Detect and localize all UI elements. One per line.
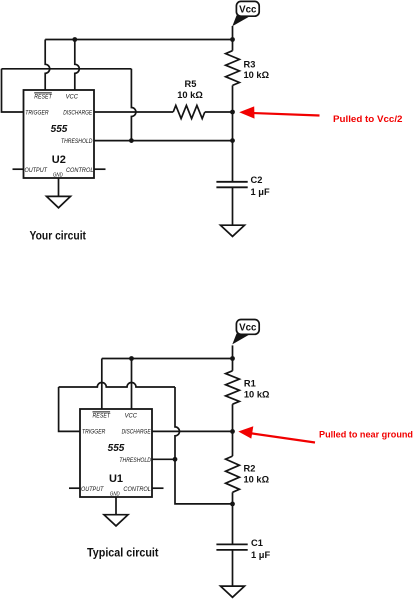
node threshold vertical junction — [173, 457, 178, 462]
svg-text:Pulled to near ground: Pulled to near ground — [319, 430, 413, 440]
wire trigger-threshold net horizontal with hops over RESET and VCC wires — [59, 383, 175, 388]
svg-text:555: 555 — [108, 443, 125, 454]
OUTPUT stub (U1) — [69, 487, 80, 489]
wire GND pin of U2 — [58, 178, 60, 196]
wire R3 bottom to node — [232, 85, 234, 181]
node VCC pin / top rail — [129, 356, 134, 361]
svg-text:GND: GND — [110, 491, 120, 497]
power flag Vcc (top) — [232, 1, 259, 26]
svg-text:CONTROL: CONTROL — [123, 486, 151, 493]
wire R5 to rail — [205, 111, 233, 113]
wire Vcc rail top segment (flag bend down to node) — [232, 345, 234, 370]
svg-text:10 kΩ: 10 kΩ — [244, 389, 270, 399]
svg-text:C1: C1 — [251, 538, 263, 548]
U2 pin labels — [25, 93, 94, 178]
red annotation arrow (top): Pulled to Vcc/2 — [239, 106, 402, 124]
wire C1 to ground — [232, 550, 234, 586]
svg-text:DISCHARGE: DISCHARGE — [122, 429, 151, 436]
svg-text:GND: GND — [53, 172, 63, 178]
wire trigger-threshold net horizontal — [2, 68, 132, 70]
node threshold/trigger vertical junction — [129, 138, 134, 143]
svg-text:R1: R1 — [244, 378, 256, 388]
node Vcc rail / top horizontal — [230, 37, 235, 42]
node Vcc rail / top horizontal — [230, 356, 235, 361]
svg-text:VCC: VCC — [66, 94, 79, 101]
ground (below C1) — [221, 586, 245, 597]
svg-text:CONTROL: CONTROL — [66, 167, 94, 174]
wire R1 bottom to discharge node — [232, 404, 234, 456]
svg-text:RESET: RESET — [34, 94, 52, 101]
svg-text:VCC: VCC — [125, 413, 138, 420]
node junction dots (bottom circuit) — [129, 356, 235, 506]
wire left vertical down to TRIGGER — [2, 69, 24, 112]
resistor R1 — [226, 371, 240, 404]
svg-text:OUTPUT: OUTPUT — [25, 167, 48, 174]
wire top horizontal (Vcc to RESET/VCC pins) — [45, 39, 232, 41]
wire DISCHARGE horizontal to rail — [152, 430, 233, 432]
resistor R3 — [226, 51, 240, 86]
svg-text:R2: R2 — [244, 464, 256, 474]
svg-text:RESET: RESET — [93, 413, 111, 420]
svg-text:10 kΩ: 10 kΩ — [177, 90, 203, 100]
svg-text:U2: U2 — [52, 154, 66, 166]
svg-text:10 kΩ: 10 kΩ — [244, 70, 270, 80]
node threshold/rail junction — [230, 138, 235, 143]
wire R2 bottom to C1 — [232, 492, 234, 544]
svg-text:555: 555 — [51, 124, 68, 135]
OUTPUT stub (U2) — [13, 168, 24, 170]
capacitor C2 — [216, 182, 247, 188]
wire THRESHOLD to vertical — [152, 458, 175, 460]
U1 pin labels — [81, 412, 151, 498]
svg-text:C2: C2 — [251, 175, 263, 185]
IC U1 (555 timer) box — [80, 409, 152, 497]
wire DISCHARGE to R5 — [94, 111, 173, 113]
svg-text:Vcc: Vcc — [239, 323, 257, 334]
node junction dots (top circuit) — [72, 37, 235, 143]
wire VCC pin vertical with hop over trigger net — [75, 40, 79, 91]
wire RESET pin vertical — [101, 359, 103, 410]
svg-text:R3: R3 — [244, 59, 256, 69]
CONTROL stub (U2) — [94, 168, 106, 170]
node R1/R2/discharge/arrow junction — [230, 429, 235, 434]
wire C2 to ground — [232, 187, 234, 225]
svg-text:1 μF: 1 μF — [251, 550, 270, 560]
ground (below C2) — [221, 225, 245, 236]
node VCC pin / top rail — [72, 37, 77, 42]
wire right vertical to THRESHOLD with hop over discharge wire — [131, 69, 136, 141]
svg-text:Vcc: Vcc — [239, 5, 257, 16]
node R3/R5/arrow junction — [230, 110, 235, 115]
svg-text:U1: U1 — [109, 473, 123, 485]
svg-text:10 kΩ: 10 kΩ — [244, 475, 270, 485]
capacitor C1 — [216, 544, 247, 550]
svg-text:R5: R5 — [185, 79, 197, 89]
svg-text:DISCHARGE: DISCHARGE — [63, 110, 92, 117]
svg-text:Your circuit: Your circuit — [30, 231, 87, 243]
wire top horizontal (rail to RESET corner) — [102, 358, 233, 360]
red annotation arrow (bottom): Pulled to near ground — [238, 426, 413, 442]
svg-text:TRIGGER: TRIGGER — [82, 429, 106, 436]
wire right vertical to THRESHOLD/C1 with hop over discharge wire — [175, 387, 233, 504]
svg-text:Typical circuit: Typical circuit — [87, 548, 159, 560]
node R2 bottom / C1 / trigger net junction — [230, 502, 235, 507]
wire Vcc rail top segment (flag bend down to node) — [232, 26, 234, 51]
wire GND pin of U1 — [115, 497, 117, 515]
wire THRESHOLD horizontal to rail — [94, 140, 233, 142]
CONTROL stub (U1) — [152, 487, 164, 489]
svg-text:THRESHOLD: THRESHOLD — [119, 457, 151, 464]
ground (below U2) — [47, 196, 71, 207]
svg-text:THRESHOLD: THRESHOLD — [61, 138, 93, 145]
resistor R2 — [226, 456, 240, 492]
wire RESET pin vertical with hop over trigger net — [45, 40, 49, 91]
wire VCC pin vertical — [131, 359, 133, 410]
wire left vertical down to TRIGGER — [59, 387, 80, 431]
svg-text:OUTPUT: OUTPUT — [81, 486, 104, 493]
ground (below U1) — [104, 515, 128, 526]
svg-text:TRIGGER: TRIGGER — [25, 110, 49, 117]
resistor R5 — [173, 105, 205, 118]
power flag Vcc (bottom) — [232, 320, 259, 345]
svg-text:Pulled to Vcc/2: Pulled to Vcc/2 — [333, 114, 403, 124]
svg-text:1 μF: 1 μF — [251, 187, 270, 197]
IC U2 (555 timer) box — [24, 90, 95, 178]
